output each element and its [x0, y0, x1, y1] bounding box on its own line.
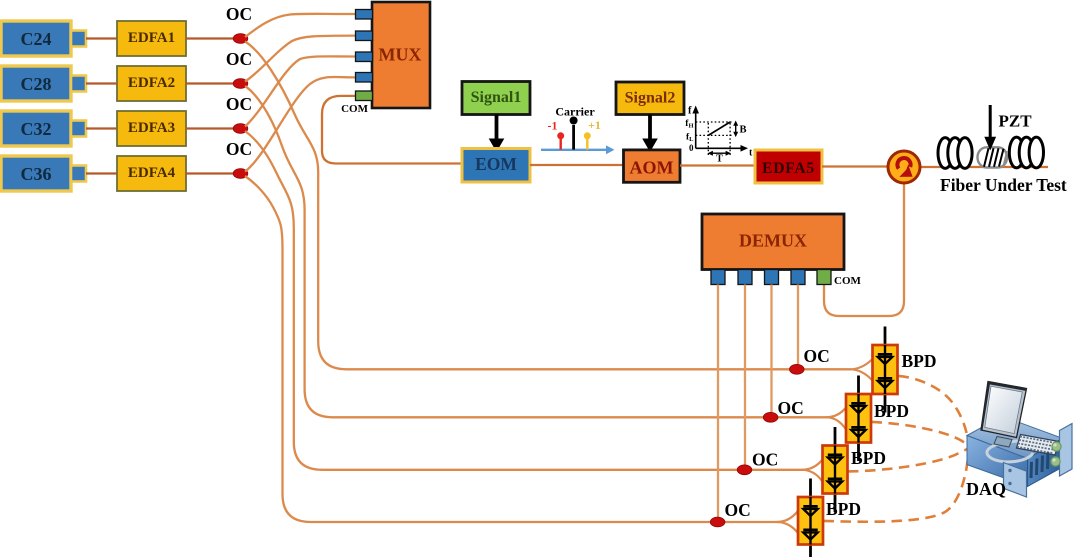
wire DEMUX port1 down [717, 285, 719, 521]
fork OC3b to BPD3 [802, 460, 823, 482]
svg-text:OC: OC [226, 4, 252, 24]
laser C28 [1, 66, 86, 101]
MUX port 3 [356, 52, 373, 62]
wire EDFA1 to OC1 [186, 37, 234, 39]
modulator EOM [462, 149, 530, 183]
DEMUX COM port [817, 270, 831, 285]
coupler OC4 [233, 169, 248, 179]
wire EDFA5 to circulator [822, 165, 888, 167]
dashed wire BPD1 to DAQ [899, 376, 969, 447]
wire C28 to EDFA2 [86, 82, 117, 84]
wire C32 to EDFA3 [86, 127, 117, 129]
wire EOM to AOM [530, 164, 624, 166]
wire OC4 local-oscillator path to OC4b [245, 176, 779, 522]
circulator [888, 151, 920, 183]
signal generator Signal1 [462, 82, 530, 115]
svg-text:DEMUX: DEMUX [739, 231, 807, 251]
svg-text:COM: COM [341, 103, 369, 115]
svg-text:OC: OC [226, 94, 252, 114]
laser C32 [1, 111, 86, 146]
svg-text:C24: C24 [21, 29, 52, 49]
DEMUX U2 [702, 214, 844, 270]
wire EDFA2 to OC2 [186, 82, 234, 84]
dashed wire BPD2 to DAQ [872, 422, 969, 448]
svg-text:MUX: MUX [379, 45, 422, 65]
svg-text:COM: COM [834, 275, 862, 287]
coupler OC1 [233, 34, 248, 44]
svg-text:BPD: BPD [902, 351, 937, 371]
wire AOM to EDFA5 [680, 164, 755, 166]
wire DEMUX port4 down [797, 285, 799, 369]
carrier sketch -1 sideband [560, 139, 562, 150]
PZT wrapped section [978, 147, 1008, 167]
svg-text:DAQ: DAQ [966, 479, 1006, 499]
svg-text:+1: +1 [588, 118, 601, 132]
wire OC3 to MUX port3 [245, 56, 356, 126]
svg-text:Carrier: Carrier [555, 105, 595, 119]
amplifier EDFA2 [117, 66, 186, 101]
amplifier EDFA5 [755, 150, 822, 183]
wire EDFA3 to OC3 [186, 127, 234, 129]
wire OC2 to MUX port2 [245, 36, 356, 82]
svg-text:EDFA4: EDFA4 [128, 165, 176, 181]
MUX U1 [372, 2, 430, 108]
arrow Signal2 to AOM [648, 115, 652, 141]
carrier sketch carrier tone [572, 125, 575, 150]
wire MUX COM to EOM [322, 96, 462, 164]
svg-text:EDFA1: EDFA1 [128, 30, 175, 46]
svg-text:OC: OC [725, 500, 751, 520]
svg-text:OC: OC [226, 49, 252, 69]
coupler OC4b [710, 517, 725, 527]
amplifier EDFA1 [117, 21, 186, 56]
svg-text:BPD: BPD [826, 499, 861, 519]
wire EDFA4 to OC4 [186, 172, 234, 174]
svg-text:-1: -1 [548, 119, 558, 133]
svg-text:OC: OC [778, 398, 804, 418]
wire OC1 local-oscillator path to OC1b [245, 42, 851, 370]
laser C24 [1, 21, 86, 56]
svg-text:PZT: PZT [999, 112, 1033, 131]
wire OC1 to MUX port1 [245, 14, 356, 37]
carrier sketch blue axis arrow [541, 149, 608, 151]
wire DEMUX port2 down [744, 285, 746, 469]
coupler OC1b [790, 364, 805, 374]
svg-text:EOM: EOM [475, 154, 517, 174]
detector BPD3 [823, 427, 848, 512]
coupler OC3 [233, 124, 248, 134]
svg-text:Signal2: Signal2 [625, 90, 676, 107]
svg-text:OC: OC [752, 450, 778, 470]
svg-text:0: 0 [689, 143, 694, 153]
amplifier EDFA4 [117, 156, 186, 191]
arrow Signal1 to EOM [495, 115, 499, 141]
carrier sketch +1 sideband [586, 139, 588, 150]
detector BPD4 [798, 479, 823, 557]
detector BPD2 [846, 376, 871, 462]
svg-text:f: f [688, 106, 692, 117]
arrow PZT [989, 105, 992, 138]
modulator AOM [624, 150, 681, 182]
fiber coil right [1009, 137, 1043, 168]
coupler OC3b [737, 465, 752, 475]
fork OC2b to BPD2 [826, 408, 846, 430]
svg-text:C32: C32 [21, 119, 52, 139]
fiber coil left [938, 138, 972, 169]
chirp inset axes [696, 112, 742, 148]
DEMUX port 2 [738, 270, 752, 285]
wire C24 to EDFA1 [86, 37, 117, 39]
MUX COM port [356, 91, 373, 101]
wire OC3 local-oscillator path to OC3b [245, 131, 804, 470]
svg-text:OC: OC [226, 139, 252, 159]
MUX port 1 [356, 10, 373, 20]
coupler OC2b [763, 412, 778, 422]
DAQ computer [967, 382, 1072, 498]
svg-text:AOM: AOM [630, 158, 674, 178]
svg-text:OC: OC [804, 346, 830, 366]
svg-text:BPD: BPD [874, 401, 909, 421]
fork OC1b to BPD1 [850, 359, 873, 381]
coupler OC2 [233, 79, 248, 89]
svg-text:BPD: BPD [851, 448, 886, 468]
detector BPD1 [873, 327, 898, 413]
svg-text:EDFA3: EDFA3 [128, 120, 175, 136]
wire circulator down to DEMUX COM [824, 183, 904, 316]
laser C36 [1, 156, 86, 191]
svg-text:T: T [716, 154, 723, 165]
wire OC4 to MUX port4 [245, 77, 356, 172]
signal generator Signal2 [616, 82, 684, 115]
DEMUX port 1 [711, 270, 725, 285]
svg-text:B: B [740, 125, 747, 136]
svg-text:Fiber Under Test: Fiber Under Test [940, 175, 1067, 195]
svg-text:C36: C36 [21, 164, 52, 184]
chirp inset T span arrow [712, 152, 728, 154]
chirp inset dotted guides [696, 122, 733, 155]
chirp inset ramp line [708, 122, 730, 135]
DEMUX port 3 [765, 270, 779, 285]
wire circulator to fiber [920, 166, 1048, 168]
MUX port 2 [356, 31, 373, 41]
DEMUX port 4 [791, 270, 805, 285]
svg-text:C28: C28 [21, 74, 52, 94]
chirp inset B span arrow [735, 124, 737, 134]
amplifier EDFA3 [117, 111, 186, 146]
wire C36 to EDFA4 [86, 172, 117, 174]
dashed wire BPD4 to DAQ [824, 450, 969, 522]
fork OC4b to BPD4 [777, 511, 798, 533]
dashed wire BPD3 to DAQ [848, 448, 969, 471]
svg-text:Signal1: Signal1 [471, 89, 522, 106]
svg-text:EDFA2: EDFA2 [128, 75, 175, 91]
wire OC2 local-oscillator path to OC2b [245, 86, 828, 417]
svg-text:EDFA5: EDFA5 [762, 160, 815, 177]
MUX port 4 [356, 73, 373, 83]
wire DEMUX port3 down [770, 285, 772, 417]
